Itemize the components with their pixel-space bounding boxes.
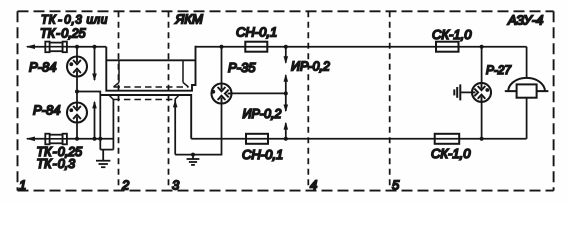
wire: Р-35 right to dimension line <box>232 92 286 94</box>
node: socket2 on bottom bus <box>75 137 79 141</box>
cord in upper duct (dashed conductor) <box>114 61 189 87</box>
dimension arrow down ИР lower <box>285 93 287 111</box>
wire: socket2 bottom to bottom bus <box>76 123 78 139</box>
fuse СК-1,0 top <box>436 42 459 52</box>
wire: earpiece to bottom bus <box>526 98 528 139</box>
node: junction right of Р-35 <box>284 91 288 95</box>
svg-text:СК-1,0: СК-1,0 <box>431 146 471 161</box>
wire: plug to Р-27 <box>460 91 472 93</box>
wire: ground 1 link <box>100 149 113 151</box>
wire: stub to socket 1 top <box>76 47 78 57</box>
cord shield arrow to ground (section 3) <box>174 100 176 155</box>
svg-text:ИР-0,2: ИР-0,2 <box>243 107 282 121</box>
fuse ТК top (cartridge with caps) <box>45 42 67 53</box>
earpiece body rectangle <box>517 84 537 97</box>
node: bottom bus dimension tap ИР <box>284 137 288 141</box>
node: top bus to socket Р-27 <box>480 45 484 49</box>
node: top wire dimension tap <box>93 45 97 49</box>
svg-text:СК-1,0: СК-1,0 <box>432 27 472 42</box>
arrow to line (top left) <box>26 44 35 49</box>
svg-text:ТК - 0,3: ТК - 0,3 <box>37 157 76 171</box>
node: duct wall on bottom bus <box>98 137 102 141</box>
earpiece base line <box>505 90 549 92</box>
section divider 3/4 <box>307 11 309 190</box>
cord duct lower box <box>100 95 191 139</box>
wire: top bus corner down to earpiece <box>526 47 528 78</box>
svg-text:СН-0,1: СН-0,1 <box>236 25 277 40</box>
outer dashed boundary frame (room plan) <box>18 11 554 190</box>
node: top bus to socket Р-35 <box>220 45 224 49</box>
wire: Р-35 bottom to ground bar <box>175 104 221 155</box>
svg-text:4: 4 <box>310 178 317 193</box>
socket Р-27 <box>472 83 491 102</box>
fuse СН-0,1 bottom <box>246 134 268 144</box>
node: junction between sockets <box>75 90 79 94</box>
svg-text:Р-27: Р-27 <box>486 63 511 77</box>
wire: top bus, left span <box>27 46 106 48</box>
section divider 1/2 <box>118 11 120 190</box>
svg-text:ЯКМ: ЯКМ <box>175 12 204 27</box>
svg-text:СН-0,1: СН-0,1 <box>242 147 283 162</box>
socket Р-35 <box>212 84 232 104</box>
svg-text:ИР-0,2: ИР-0,2 <box>291 60 330 74</box>
fuse СН-0,1 top <box>245 42 267 52</box>
section divider 4/5 <box>389 11 391 190</box>
ground 2 <box>187 155 200 165</box>
svg-text:2: 2 <box>121 178 130 193</box>
svg-text:ТК - 0,3 или: ТК - 0,3 или <box>41 14 108 26</box>
wire: socket1 bottom to junction <box>76 77 78 92</box>
wire: bottom bus, right span <box>191 138 526 140</box>
cord duct upper box <box>106 46 195 91</box>
wire: top bus, right span <box>196 46 527 48</box>
section divider 2/3 <box>168 11 170 190</box>
svg-text:Р-35: Р-35 <box>228 60 256 75</box>
svg-text:Р-84: Р-84 <box>29 60 56 75</box>
wire: stub to Р-27 top <box>481 47 483 83</box>
node: top wire to socket 1 <box>75 45 79 49</box>
svg-text:1: 1 <box>19 178 26 193</box>
svg-text:Р-84: Р-84 <box>33 103 60 118</box>
ground 1 <box>96 150 110 168</box>
svg-text:3: 3 <box>172 178 180 193</box>
node: ground 2 tap <box>191 153 195 157</box>
plug (loudspeaker plug) <box>454 84 460 100</box>
socket Р-84 no.2 <box>67 103 87 123</box>
cord in lower duct (dashed conductor) <box>110 96 179 100</box>
fuse СК-1,0 bottom <box>435 134 460 144</box>
dimension arrow down ИР upper <box>285 47 287 63</box>
dimension arrow up ИР lower <box>285 123 287 139</box>
node: top bus dimension tap ИР <box>284 45 288 49</box>
earpiece (headphone) dome <box>508 78 545 91</box>
wire: junction to socket 2 top <box>76 92 78 103</box>
wire: bottom bus, left span <box>27 138 113 140</box>
svg-text:АЗУ-4: АЗУ-4 <box>507 12 543 27</box>
dimension arrow up (section 1 wiring) <box>94 102 96 139</box>
wire: lower cord conductor to ground 1 <box>112 100 114 150</box>
svg-text:5: 5 <box>392 178 400 193</box>
svg-text:ТК - 0,25: ТК - 0,25 <box>40 27 86 41</box>
node: Р-27 on bottom bus <box>480 137 484 141</box>
arrow to line (bottom left) <box>26 137 35 142</box>
dimension arrow up ИР upper <box>285 75 287 93</box>
dimension arrow down (section 1 wiring) <box>94 47 96 80</box>
wire: Р-27 bottom to bottom bus <box>481 102 483 139</box>
wire: junction to lower cord duct <box>77 92 100 150</box>
socket Р-84 no.1 <box>67 57 87 77</box>
fuse ТК bottom (cartridge with caps) <box>45 134 67 145</box>
node: dimension tap on bottom bus <box>93 137 97 141</box>
wire: stub to Р-35 top <box>221 47 223 84</box>
